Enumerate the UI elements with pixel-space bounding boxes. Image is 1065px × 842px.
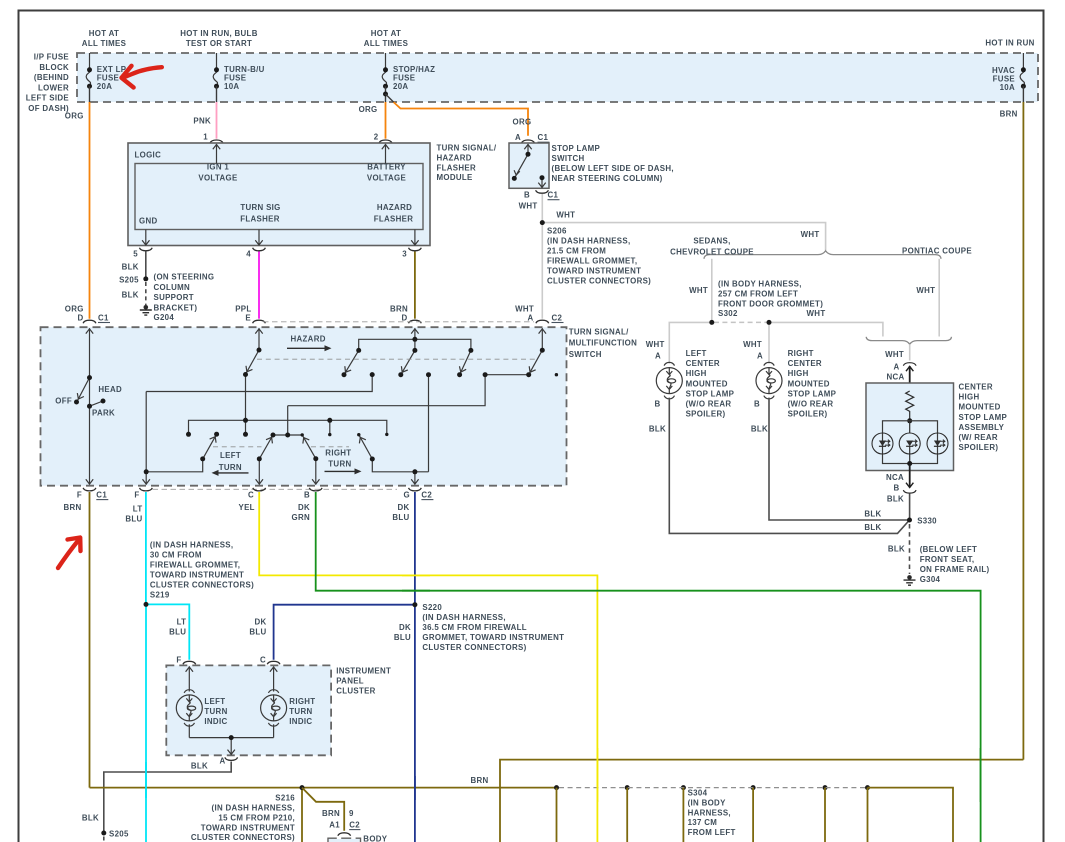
- E feed branch: [258, 328, 260, 350]
- wire BLK pin 5 to S205: [145, 252, 147, 279]
- svg-text:(IN BODY HARNESS,: (IN BODY HARNESS,: [718, 279, 802, 288]
- wire DK BLU S220 branch to cluster C: [274, 605, 415, 660]
- svg-text:TURN SIGNAL/: TURN SIGNAL/: [569, 328, 629, 337]
- wire PPL pin 4 to switch pin E: [258, 252, 260, 319]
- center high mounted stop lamp assembly box: [866, 383, 954, 471]
- svg-text:TOWARD INSTRUMENT: TOWARD INSTRUMENT: [150, 570, 244, 579]
- svg-text:ORG: ORG: [65, 305, 84, 314]
- I/P fuse block (dashed box): [77, 53, 1038, 102]
- fuse TURN-B/U FUSE 10A: [213, 53, 264, 91]
- svg-text:BRN: BRN: [390, 305, 408, 314]
- svg-text:36.5 CM FROM FIREWALL: 36.5 CM FROM FIREWALL: [422, 623, 526, 632]
- center lamp connector B NCA: [909, 464, 911, 488]
- svg-text:GROMMET, TOWARD INSTRUMENT: GROMMET, TOWARD INSTRUMENT: [422, 633, 564, 642]
- svg-text:DK: DK: [399, 623, 411, 632]
- stop lamp switch box: [509, 143, 549, 188]
- wire BLK left lamp to S330: [669, 398, 909, 534]
- svg-text:F: F: [176, 656, 181, 665]
- REDARROWS: [58, 66, 162, 568]
- connector face dashed line (bottom): [153, 488, 398, 490]
- splice S302 row: left lamp drop: [669, 322, 712, 363]
- connector face dashed line (top): [263, 321, 534, 323]
- wire ORG branch to stop lamp switch: [386, 94, 395, 103]
- svg-text:A1: A1: [329, 821, 340, 830]
- svg-text:MOUNTED: MOUNTED: [788, 379, 830, 388]
- svg-text:SPOILER): SPOILER): [959, 443, 999, 452]
- svg-text:DK: DK: [254, 618, 266, 627]
- svg-text:G304: G304: [920, 575, 941, 584]
- wire WHT brace2 to center lamp A: [909, 344, 911, 360]
- svg-text:BLK: BLK: [864, 510, 881, 519]
- svg-text:COLUMN: COLUMN: [154, 283, 191, 292]
- svg-text:BLU: BLU: [125, 515, 142, 524]
- wire YEL over BRN runs: [596, 748, 598, 802]
- splice S216 junction dot: [300, 785, 305, 790]
- svg-text:HAZARD: HAZARD: [377, 203, 412, 212]
- svg-text:PPL: PPL: [235, 305, 251, 314]
- svg-text:SWITCH: SWITCH: [552, 154, 585, 163]
- svg-text:FROM LEFT: FROM LEFT: [688, 828, 736, 837]
- bus d: [189, 420, 387, 434]
- svg-text:S302: S302: [718, 309, 738, 318]
- svg-text:A: A: [893, 363, 899, 372]
- svg-text:TURN SIG: TURN SIG: [240, 203, 280, 212]
- wire DK GRN over BRN runs: [980, 748, 982, 802]
- svg-text:TURN SIGNAL/: TURN SIGNAL/: [437, 144, 497, 153]
- svg-text:20A: 20A: [97, 82, 112, 91]
- mechanical link (hazard): [257, 358, 535, 360]
- body style brace (sedans / pontiac): [704, 251, 941, 259]
- svg-text:B: B: [754, 400, 760, 409]
- svg-text:HOT AT: HOT AT: [89, 29, 119, 38]
- svg-text:STOP LAMP: STOP LAMP: [552, 144, 601, 153]
- svg-text:LEFT SIDE: LEFT SIDE: [26, 94, 69, 103]
- svg-text:IGN 1: IGN 1: [207, 163, 230, 172]
- svg-text:BRN: BRN: [470, 776, 488, 785]
- svg-text:OF DASH): OF DASH): [28, 104, 69, 113]
- svg-text:WHT: WHT: [885, 350, 904, 359]
- wire BRN lower run to S216: [90, 787, 303, 789]
- svg-text:D: D: [401, 314, 407, 323]
- wire LT BLU over BLK and BRN runs: [145, 762, 147, 798]
- turn signal/hazard flasher module box: [128, 143, 430, 246]
- svg-text:D: D: [77, 314, 83, 323]
- svg-text:GRN: GRN: [292, 513, 311, 522]
- svg-text:BLU: BLU: [249, 628, 266, 637]
- svg-text:NCA: NCA: [886, 373, 904, 382]
- svg-text:21.5 CM FROM: 21.5 CM FROM: [547, 247, 606, 256]
- turn signal / multifunction switch box: [41, 327, 567, 486]
- mechanical link (turn): [213, 446, 262, 448]
- wire BLK S330 to G304 (dashed): [909, 524, 911, 574]
- wire DK BLU over BRN run: [414, 776, 416, 800]
- connector B (bottom): [309, 488, 322, 491]
- led lamps: [872, 433, 893, 454]
- svg-text:10A: 10A: [1000, 83, 1015, 92]
- crossing overlays: [146, 575, 981, 802]
- svg-text:DK: DK: [397, 503, 409, 512]
- svg-text:WHT: WHT: [646, 340, 665, 349]
- svg-text:A: A: [515, 133, 521, 142]
- svg-text:C: C: [260, 656, 266, 665]
- svg-text:SEDANS,: SEDANS,: [693, 237, 730, 246]
- svg-text:PNK: PNK: [193, 117, 211, 126]
- connector A (cluster bottom): [225, 757, 238, 760]
- svg-text:LOGIC: LOGIC: [135, 151, 162, 160]
- svg-text:CLUSTER CONNECTORS): CLUSTER CONNECTORS): [191, 833, 295, 842]
- BOTTOM: [90, 760, 1024, 842]
- wire WHT S302 east to brace2: [769, 322, 883, 336]
- svg-text:(IN DASH HARNESS,: (IN DASH HARNESS,: [150, 541, 233, 550]
- svg-text:2: 2: [374, 133, 379, 142]
- svg-text:BRACKET): BRACKET): [154, 303, 198, 312]
- wire ORG from EXT LP fuse down to C1 pin D: [89, 86, 91, 102]
- svg-text:CENTER: CENTER: [686, 359, 720, 368]
- svg-text:LEFT: LEFT: [220, 451, 241, 460]
- svg-text:C1: C1: [538, 133, 549, 142]
- svg-text:SUPPORT: SUPPORT: [154, 293, 194, 302]
- svg-text:(IN DASH HARNESS,: (IN DASH HARNESS,: [422, 613, 505, 622]
- svg-text:30 CM FROM: 30 CM FROM: [150, 551, 202, 560]
- svg-text:CENTER: CENTER: [788, 359, 822, 368]
- connector G C2 (bottom): [409, 488, 422, 491]
- right turn indicator lamp: [261, 690, 287, 726]
- wire DK GRN over DK BLU: [402, 590, 430, 592]
- svg-text:LOWER: LOWER: [38, 83, 69, 92]
- svg-text:HEAD: HEAD: [98, 385, 122, 394]
- pin 3 output: [411, 230, 418, 246]
- MODULE: [65, 86, 1024, 759]
- svg-text:BRN: BRN: [63, 503, 81, 512]
- svg-text:(ON STEERING: (ON STEERING: [154, 273, 215, 282]
- svg-text:LT: LT: [177, 618, 187, 627]
- svg-text:BLU: BLU: [169, 628, 186, 637]
- svg-text:INSTRUMENT: INSTRUMENT: [336, 667, 391, 676]
- svg-text:ORG: ORG: [65, 112, 84, 121]
- svg-text:BLK: BLK: [887, 495, 904, 504]
- svg-text:BRN: BRN: [322, 809, 340, 818]
- wire WHT S206 east to brace: [542, 223, 825, 250]
- annotation arrow (EXT LP fuse): [123, 67, 162, 78]
- svg-text:BLU: BLU: [394, 633, 411, 642]
- svg-text:ORG: ORG: [359, 105, 378, 114]
- pin 4 output: [255, 230, 262, 246]
- svg-text:CLUSTER CONNECTORS): CLUSTER CONNECTORS): [422, 643, 526, 652]
- svg-text:WHT: WHT: [743, 340, 762, 349]
- svg-text:C: C: [248, 491, 254, 500]
- svg-text:OFF: OFF: [55, 397, 72, 406]
- svg-text:PONTIAC COUPE: PONTIAC COUPE: [902, 247, 972, 256]
- svg-text:BLK: BLK: [751, 425, 768, 434]
- pin 2 internal lead: [382, 144, 389, 164]
- connector F (bottom): [140, 488, 153, 491]
- wire BLK right lamp to S330: [769, 398, 910, 520]
- fuse EXT LP FUSE 20A: [86, 53, 126, 91]
- LAMPS: [646, 340, 1007, 585]
- svg-text:FRONT DOOR GROMMET): FRONT DOOR GROMMET): [718, 299, 823, 308]
- switch internals: [514, 144, 546, 187]
- wire LT BLU S219 branch to cluster F: [146, 604, 189, 659]
- svg-text:LEFT: LEFT: [686, 349, 707, 358]
- wire BRN pin 3 to switch pin D: [414, 252, 416, 319]
- svg-text:WHT: WHT: [519, 202, 538, 211]
- svg-text:C1: C1: [548, 191, 559, 200]
- MFSWITCH: [41, 305, 638, 500]
- svg-text:YEL: YEL: [238, 503, 254, 512]
- wire ORG from STOP/HAZ fuse to module pin 2: [385, 86, 387, 102]
- svg-text:TOWARD INSTRUMENT: TOWARD INSTRUMENT: [547, 267, 641, 276]
- svg-text:FLASHER: FLASHER: [240, 214, 280, 223]
- wire WHT right lamp drop: [768, 322, 770, 363]
- svg-text:ALL TIMES: ALL TIMES: [364, 39, 408, 48]
- svg-text:LT: LT: [133, 505, 143, 514]
- svg-text:B: B: [893, 484, 899, 493]
- svg-text:FRONT SEAT,: FRONT SEAT,: [920, 555, 975, 564]
- wire BLK cluster A to S205: [104, 762, 231, 834]
- wire BRN S216 down: [301, 788, 303, 842]
- svg-text:BLK: BLK: [122, 263, 139, 272]
- svg-text:(W/ REAR: (W/ REAR: [959, 433, 998, 442]
- svg-text:RIGHT: RIGHT: [788, 349, 814, 358]
- body connector box: [329, 839, 360, 842]
- svg-text:BLK: BLK: [888, 545, 905, 554]
- wire BRN from HVAC fuse down right side: [1022, 86, 1024, 102]
- svg-text:S206: S206: [547, 227, 567, 236]
- svg-text:TOWARD INSTRUMENT: TOWARD INSTRUMENT: [201, 823, 295, 832]
- svg-text:ORG: ORG: [513, 118, 532, 127]
- svg-text:ALL TIMES: ALL TIMES: [82, 39, 126, 48]
- svg-text:C1: C1: [98, 314, 109, 323]
- svg-text:20A: 20A: [393, 82, 408, 91]
- svg-text:RIGHT: RIGHT: [325, 449, 351, 458]
- svg-text:S219: S219: [150, 590, 170, 599]
- headlamp switch: [89, 328, 91, 484]
- svg-text:I/P FUSE: I/P FUSE: [34, 53, 69, 62]
- svg-text:BLK: BLK: [864, 523, 881, 532]
- bus c: [288, 375, 485, 406]
- svg-text:NCA: NCA: [886, 473, 904, 482]
- connector C (bottom): [253, 488, 266, 491]
- wire WHT S206 to multifunction switch A C2: [541, 223, 543, 319]
- left turn switch: [203, 434, 217, 459]
- svg-text:WHT: WHT: [807, 309, 826, 318]
- wire BRN S216 branch to body connector 9: [302, 788, 344, 831]
- svg-text:VOLTAGE: VOLTAGE: [367, 174, 406, 183]
- svg-text:CENTER: CENTER: [959, 383, 993, 392]
- svg-text:FLASHER: FLASHER: [437, 163, 477, 172]
- svg-text:A: A: [219, 757, 225, 766]
- svg-text:(IN DASH HARNESS,: (IN DASH HARNESS,: [547, 237, 630, 246]
- bus a: [146, 375, 372, 392]
- svg-text:FLASHER: FLASHER: [374, 214, 414, 223]
- wire YEL C run: [259, 492, 597, 842]
- svg-text:C1: C1: [96, 491, 107, 500]
- wire BLK center lamp B to S330: [909, 494, 911, 521]
- svg-text:HIGH: HIGH: [788, 369, 809, 378]
- svg-text:S330: S330: [917, 517, 937, 526]
- svg-text:BLK: BLK: [191, 762, 208, 771]
- svg-text:NEAR STEERING COLUMN): NEAR STEERING COLUMN): [552, 174, 663, 183]
- wire DK GRN B run: [316, 492, 981, 842]
- pin 5 output: [142, 230, 149, 246]
- svg-text:G: G: [404, 491, 410, 500]
- svg-text:WHT: WHT: [556, 211, 575, 220]
- resistor: [906, 391, 914, 421]
- splice S205 (lower): [101, 831, 106, 836]
- junction on STOP/HAZ orange: [383, 92, 388, 97]
- wire BRN F C1 down-left run: [89, 492, 91, 788]
- right turn switch: [359, 435, 373, 459]
- svg-text:BRN: BRN: [1000, 110, 1018, 119]
- svg-text:TURN: TURN: [204, 707, 227, 716]
- svg-text:(BELOW LEFT SIDE OF DASH,: (BELOW LEFT SIDE OF DASH,: [552, 164, 674, 173]
- fuse STOP/HAZ FUSE 20A: [382, 53, 435, 91]
- wire LT BLU S219 down: [145, 604, 147, 842]
- svg-text:HOT IN RUN, BULB: HOT IN RUN, BULB: [180, 29, 257, 38]
- svg-text:S205: S205: [109, 830, 129, 839]
- svg-text:WHT: WHT: [801, 230, 820, 239]
- svg-text:WHT: WHT: [916, 286, 935, 295]
- svg-text:MULTIFUNCTION: MULTIFUNCTION: [569, 339, 637, 348]
- instrument panel cluster box: [166, 665, 331, 755]
- svg-text:(W/O REAR: (W/O REAR: [788, 400, 834, 409]
- svg-text:CHEVROLET COUPE: CHEVROLET COUPE: [670, 247, 754, 256]
- splice S304 row of junctions: [554, 785, 870, 790]
- svg-text:9: 9: [349, 809, 354, 818]
- svg-text:ASSEMBLY: ASSEMBLY: [959, 423, 1005, 432]
- connector F C1 (bottom): [83, 488, 96, 491]
- splice S302 junction dots: [709, 320, 714, 325]
- svg-text:5: 5: [133, 250, 138, 259]
- svg-text:PANEL: PANEL: [336, 677, 364, 686]
- svg-text:S216: S216: [275, 793, 295, 802]
- svg-text:RIGHT: RIGHT: [289, 697, 315, 706]
- svg-text:HARNESS,: HARNESS,: [688, 808, 731, 817]
- svg-text:BLK: BLK: [122, 291, 139, 300]
- svg-text:HIGH: HIGH: [959, 393, 980, 402]
- svg-text:BLK: BLK: [649, 425, 666, 434]
- svg-text:GND: GND: [139, 217, 158, 226]
- wire BLK S205 to G204 (dashed): [145, 282, 147, 305]
- svg-text:S205: S205: [119, 276, 139, 285]
- svg-text:TEST OR START: TEST OR START: [186, 39, 252, 48]
- svg-text:VOLTAGE: VOLTAGE: [198, 174, 237, 183]
- wire WHT dashed S302 segment: [714, 321, 767, 323]
- svg-text:MODULE: MODULE: [437, 173, 473, 182]
- svg-text:C2: C2: [552, 314, 563, 323]
- turn signal trapezoid: [273, 434, 302, 436]
- splice S330: [907, 518, 912, 523]
- svg-text:E: E: [245, 314, 251, 323]
- STOPSWITCH: [509, 133, 674, 223]
- WHTNET: [515, 211, 972, 364]
- svg-text:(IN BODY: (IN BODY: [688, 798, 726, 807]
- splice S206 junction dot: [540, 220, 545, 225]
- svg-text:(BEHIND: (BEHIND: [34, 73, 69, 82]
- svg-text:(BELOW LEFT: (BELOW LEFT: [920, 545, 977, 554]
- wire DK BLU S220 down: [414, 605, 416, 842]
- svg-text:TURN: TURN: [328, 459, 351, 468]
- connector B C1: [536, 190, 549, 193]
- svg-text:F: F: [134, 491, 139, 500]
- svg-text:A: A: [757, 352, 763, 361]
- svg-text:BLOCK: BLOCK: [39, 63, 69, 72]
- svg-text:G204: G204: [154, 313, 175, 322]
- svg-text:B: B: [524, 191, 530, 200]
- svg-text:257 CM FROM LEFT: 257 CM FROM LEFT: [718, 289, 798, 298]
- svg-text:INDIC: INDIC: [289, 717, 312, 726]
- svg-text:(IN DASH HARNESS,: (IN DASH HARNESS,: [212, 803, 295, 812]
- svg-text:HAZARD: HAZARD: [437, 153, 472, 162]
- svg-text:3: 3: [402, 250, 407, 259]
- svg-text:LEFT: LEFT: [204, 697, 225, 706]
- wire DK BLU G to S220: [414, 492, 416, 605]
- wire BRN dashed S304 bus: [559, 787, 865, 789]
- svg-text:HAZARD: HAZARD: [291, 335, 326, 344]
- svg-text:137 CM: 137 CM: [688, 818, 718, 827]
- svg-text:MOUNTED: MOUNTED: [686, 379, 728, 388]
- wire BRN S304 drops: [557, 788, 868, 842]
- splice S220 junction dot: [412, 602, 417, 607]
- svg-text:4: 4: [246, 250, 251, 259]
- svg-text:BLK: BLK: [82, 814, 99, 823]
- svg-text:SPOILER): SPOILER): [788, 410, 828, 419]
- svg-text:SPOILER): SPOILER): [686, 410, 726, 419]
- svg-text:STOP LAMP: STOP LAMP: [959, 413, 1008, 422]
- svg-text:BODY: BODY: [363, 835, 387, 842]
- svg-text:HOT IN RUN: HOT IN RUN: [985, 38, 1034, 47]
- svg-text:INDIC: INDIC: [204, 717, 227, 726]
- svg-text:A: A: [527, 314, 533, 323]
- svg-text:(W/O REAR: (W/O REAR: [686, 400, 732, 409]
- center lamp gather brace: [866, 337, 951, 345]
- svg-text:STOP LAMP: STOP LAMP: [686, 389, 735, 398]
- svg-text:B: B: [654, 400, 660, 409]
- svg-text:BATTERY: BATTERY: [367, 163, 406, 172]
- wire WHT brace to S302: [711, 259, 713, 323]
- svg-text:ON FRAME RAIL): ON FRAME RAIL): [920, 565, 990, 574]
- svg-text:WHT: WHT: [515, 305, 534, 314]
- hazard contact bank: [359, 339, 471, 350]
- svg-text:DK: DK: [298, 503, 310, 512]
- svg-text:15 CM FROM P210,: 15 CM FROM P210,: [218, 813, 295, 822]
- wire YEL over DK BLU: [402, 574, 430, 576]
- svg-text:SWITCH: SWITCH: [569, 350, 602, 359]
- svg-text:FIREWALL GROMMET,: FIREWALL GROMMET,: [150, 561, 240, 570]
- wire WHT switch B to S206: [541, 194, 543, 223]
- svg-text:STOP LAMP: STOP LAMP: [788, 389, 837, 398]
- ground G304: [904, 575, 916, 585]
- svg-text:MOUNTED: MOUNTED: [959, 403, 1001, 412]
- ground G204: [140, 305, 152, 315]
- svg-text:F: F: [77, 491, 82, 500]
- CLUSTER: [82, 656, 391, 842]
- svg-text:10A: 10A: [224, 82, 239, 91]
- wire BRN HVAC run across bottom: [500, 760, 1023, 842]
- fuse HVAC FUSE 10A: [992, 53, 1026, 92]
- svg-text:TURN: TURN: [289, 707, 312, 716]
- junction dots: [74, 337, 545, 475]
- svg-text:BLU: BLU: [392, 513, 409, 522]
- svg-text:CLUSTER CONNECTORS): CLUSTER CONNECTORS): [547, 277, 651, 286]
- wire BRN S304 east tail: [868, 788, 954, 842]
- svg-text:CLUSTER CONNECTORS): CLUSTER CONNECTORS): [150, 580, 254, 589]
- left turn indicator lamp: [176, 690, 202, 726]
- svg-text:S304: S304: [688, 789, 708, 798]
- annotation arrow (BRN wire): [58, 540, 79, 569]
- pin 1 internal lead: [213, 144, 220, 164]
- svg-text:1: 1: [203, 133, 208, 142]
